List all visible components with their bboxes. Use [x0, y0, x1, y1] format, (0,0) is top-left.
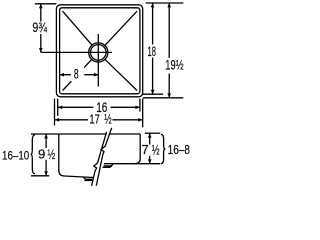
svg-text:7: 7: [142, 142, 149, 157]
arrow 9 1/2 up: [44, 134, 48, 139]
extension line outer-left below plan: [54, 99, 56, 126]
diagonal crease bottom-right: [105, 59, 137, 90]
drain horizontal centerline: [41, 51, 112, 53]
svg-text:9¾: 9¾: [32, 19, 47, 35]
arrow 19 1/2 down: [167, 93, 171, 98]
dimension 9 3/4 tick top: [35, 3, 57, 5]
svg-text:16–8: 16–8: [168, 142, 190, 157]
sink outer rim (plan view): [56, 5, 142, 97]
extension tick inner-bottom right of plan: [143, 93, 163, 95]
break line 2: [96, 128, 111, 186]
section left rim: [31, 133, 106, 135]
sink inner bowl edge (plan view): [60, 8, 140, 94]
svg-text:17: 17: [89, 111, 99, 126]
arrow 16 right: [135, 106, 140, 110]
svg-text:½: ½: [152, 142, 160, 158]
svg-text:8: 8: [74, 66, 79, 81]
section right bottom and 7 1/2 bottom tick: [104, 163, 160, 165]
dimension 19 1/2 line: [168, 3, 170, 98]
dimension 7 1/2 top tick: [145, 132, 160, 134]
svg-text:16–10: 16–10: [2, 149, 29, 163]
arrowheads: [39, 3, 171, 176]
dimension 17 1/2 line: [55, 119, 143, 121]
drain outer circle: [89, 43, 108, 62]
drain inner circle: [91, 45, 107, 61]
dimension 9 1/2 bottom tick: [31, 175, 49, 177]
section right rim: [110, 133, 141, 135]
svg-text:19½: 19½: [165, 58, 183, 73]
arrow 17 1/2 left: [55, 118, 60, 122]
brace left 16-10: [31, 135, 36, 174]
arrow 16 left: [58, 106, 63, 110]
extension line inner-left below plan: [57, 99, 59, 116]
arrow 7 1/2 down: [148, 159, 152, 164]
arrow 9 1/2 down: [44, 171, 48, 176]
section right wall: [135, 134, 141, 164]
dimension 8 line: [60, 74, 99, 76]
extension line outer-right below plan: [142, 99, 144, 128]
arrow 8 left: [59, 73, 64, 77]
arrow 8 right: [94, 73, 99, 77]
diagonal crease top-right: [105, 11, 137, 45]
arrow 9 3/4 down: [39, 48, 43, 53]
arrow 18 up: [151, 3, 155, 8]
diagonal crease top-left: [63, 11, 92, 45]
extension tick top-right of plan: [146, 2, 184, 4]
arrow 18 down: [151, 90, 155, 95]
extension line inner-right below plan: [139, 99, 141, 112]
section left wall and bottom: [59, 134, 93, 178]
arrow 9 3/4 up: [39, 4, 43, 9]
arrow 19 1/2 up: [167, 3, 171, 8]
dimension 18 line: [152, 3, 154, 94]
brace right 16-8: [161, 134, 166, 163]
dimension 16 line: [58, 106, 140, 108]
svg-text:9: 9: [38, 147, 45, 162]
arrow 7 1/2 up: [148, 133, 152, 138]
dimension 9 3/4 line: [40, 4, 42, 53]
svg-text:½: ½: [47, 147, 55, 162]
dimension 9 1/2 line: [45, 134, 47, 176]
drain vertical centerline: [97, 34, 99, 87]
section left drain step: [84, 177, 93, 180]
svg-text:½: ½: [104, 111, 111, 126]
arrow 17 1/2 right: [138, 118, 143, 122]
svg-text:18: 18: [148, 43, 157, 59]
diagonal crease bottom-left: [63, 59, 92, 90]
break line 1: [92, 132, 107, 186]
white halo behind label 8: [71, 66, 84, 81]
section right drain step: [103, 164, 114, 167]
dimension 7 1/2 line: [149, 133, 151, 164]
extension tick outer-bottom right of plan: [143, 97, 183, 99]
